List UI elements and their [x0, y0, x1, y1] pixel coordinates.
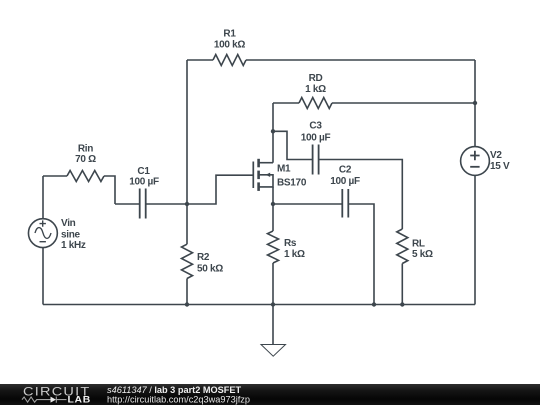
svg-text:C3: C3 — [309, 121, 322, 132]
svg-text:5 kΩ: 5 kΩ — [412, 249, 433, 260]
svg-text:1 kΩ: 1 kΩ — [284, 249, 305, 260]
svg-text:BS170: BS170 — [277, 177, 307, 188]
svg-text:C2: C2 — [339, 165, 352, 176]
svg-text:Vin: Vin — [61, 218, 76, 229]
svg-text:50 kΩ: 50 kΩ — [197, 264, 223, 275]
svg-text:100 kΩ: 100 kΩ — [214, 40, 246, 51]
svg-text:100 µF: 100 µF — [129, 176, 159, 187]
svg-text:70 Ω: 70 Ω — [75, 154, 96, 165]
svg-text:100 µF: 100 µF — [301, 133, 331, 144]
svg-text:100 µF: 100 µF — [330, 176, 360, 187]
svg-text:15 V: 15 V — [490, 161, 510, 172]
svg-text:http://circuitlab.com/c2q3wa97: http://circuitlab.com/c2q3wa973jfzp — [107, 395, 250, 405]
svg-text:1 kHz: 1 kHz — [61, 240, 86, 251]
svg-text:R2: R2 — [197, 252, 210, 263]
svg-text:1 kΩ: 1 kΩ — [305, 84, 326, 95]
svg-text:Rs: Rs — [284, 238, 297, 249]
svg-text:LAB: LAB — [68, 394, 92, 404]
svg-text:RD: RD — [309, 73, 323, 84]
svg-text:R1: R1 — [223, 29, 236, 40]
svg-text:C1: C1 — [137, 166, 150, 177]
svg-text:V2: V2 — [490, 150, 502, 161]
svg-text:M1: M1 — [277, 164, 291, 175]
svg-text:Rin: Rin — [78, 144, 93, 155]
svg-text:sine: sine — [61, 229, 81, 240]
